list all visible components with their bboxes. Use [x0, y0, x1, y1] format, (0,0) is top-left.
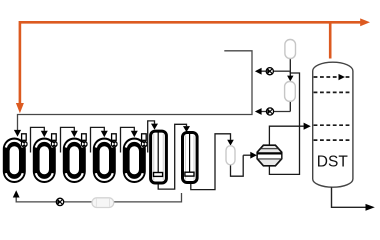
svg-text:DST: DST	[317, 154, 349, 171]
